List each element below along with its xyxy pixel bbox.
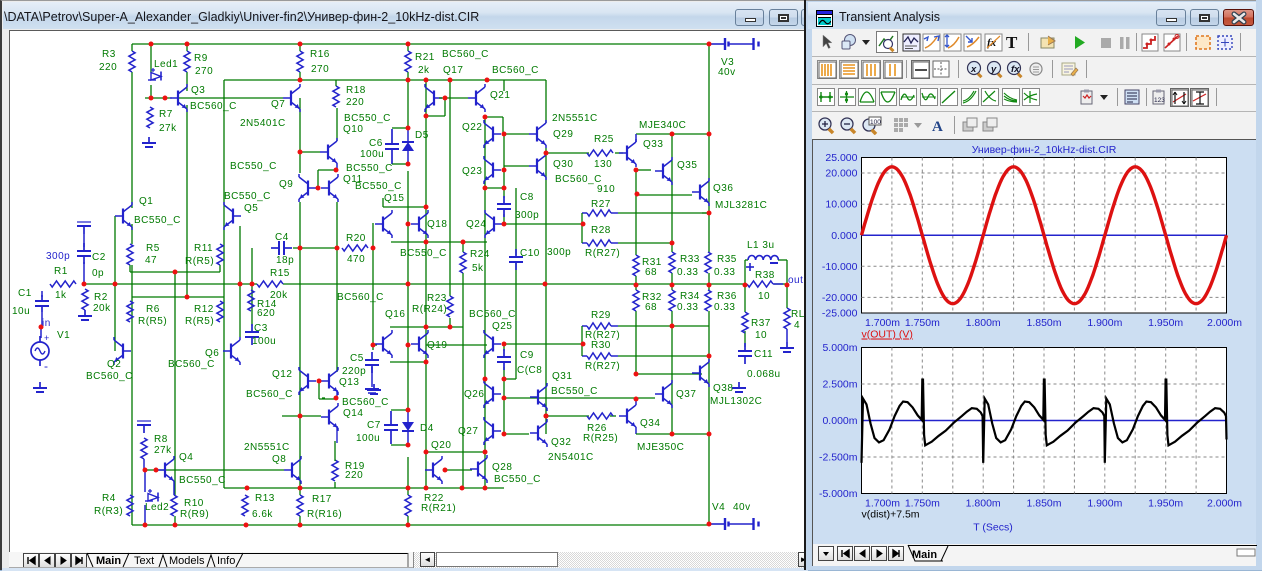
svg-text:R38: R38 — [755, 270, 775, 281]
svg-text:5k: 5k — [472, 263, 484, 274]
svg-text:R8: R8 — [154, 434, 168, 445]
svg-text:BC550_C: BC550_C — [346, 163, 393, 174]
svg-text:Q9: Q9 — [279, 179, 293, 190]
svg-text:BC550_C: BC550_C — [179, 475, 226, 486]
svg-text:R9: R9 — [194, 53, 208, 64]
svg-text:R25: R25 — [594, 134, 614, 145]
svg-text:220: 220 — [346, 97, 364, 108]
svg-text:Q22: Q22 — [462, 122, 482, 133]
svg-text:Q31: Q31 — [552, 371, 572, 382]
svg-text:R5: R5 — [146, 243, 160, 254]
svg-text:100u: 100u — [360, 149, 384, 160]
svg-text:R6: R6 — [146, 304, 160, 315]
svg-text:-5.000m: -5.000m — [819, 488, 858, 500]
svg-text:1.900m: 1.900m — [1087, 317, 1122, 329]
svg-text:R2: R2 — [94, 292, 108, 303]
svg-text:BC560_C: BC560_C — [168, 359, 215, 370]
svg-text:R(R5): R(R5) — [138, 316, 167, 327]
svg-text:4: 4 — [794, 320, 800, 331]
svg-text:20.000: 20.000 — [825, 168, 857, 180]
svg-text:R20: R20 — [346, 233, 366, 244]
svg-text:R23: R23 — [427, 293, 447, 304]
svg-text:BC550_C: BC550_C — [344, 113, 391, 124]
svg-text:BC550_C: BC550_C — [224, 191, 271, 202]
svg-text:0.33: 0.33 — [677, 302, 698, 313]
svg-text:10.000: 10.000 — [825, 199, 857, 211]
svg-text:BC550_C: BC550_C — [494, 474, 541, 485]
svg-text:BC560_C: BC560_C — [442, 49, 489, 60]
svg-text:-: - — [44, 359, 49, 373]
svg-text:100: 100 — [870, 119, 881, 126]
svg-text:R12: R12 — [194, 304, 214, 315]
svg-text:Q30: Q30 — [553, 159, 573, 170]
svg-text:0.068u: 0.068u — [747, 369, 781, 380]
svg-text:R(R9): R(R9) — [180, 509, 209, 520]
svg-text:1.850m: 1.850m — [1026, 498, 1061, 510]
svg-text:2.000m: 2.000m — [1207, 317, 1242, 329]
svg-text:Q28: Q28 — [492, 462, 512, 473]
svg-text:R29: R29 — [591, 310, 611, 321]
svg-text:R16: R16 — [310, 49, 330, 60]
svg-text:Q33: Q33 — [643, 139, 663, 150]
svg-text:BC560_C: BC560_C — [246, 389, 293, 400]
svg-text:R36: R36 — [717, 291, 737, 302]
svg-text:910: 910 — [597, 184, 615, 195]
svg-text:Q25: Q25 — [492, 321, 512, 332]
svg-text:Q23: Q23 — [462, 166, 482, 177]
svg-text:R(R27): R(R27) — [585, 248, 620, 259]
svg-text:R(R5): R(R5) — [185, 256, 214, 267]
svg-text:2k: 2k — [418, 65, 430, 76]
svg-text:C10: C10 — [520, 248, 540, 259]
svg-text:Q35: Q35 — [677, 160, 697, 171]
svg-text:Text: Text — [134, 555, 154, 567]
svg-text:300p: 300p — [515, 210, 539, 221]
svg-text:v(dist)+7.5m: v(dist)+7.5m — [862, 509, 920, 521]
svg-text:C2: C2 — [92, 252, 106, 263]
svg-text:BC550_C: BC550_C — [134, 215, 181, 226]
svg-text:A: A — [932, 119, 943, 135]
svg-text:R35: R35 — [717, 254, 737, 265]
svg-text:-20.000: -20.000 — [822, 292, 858, 304]
svg-text:R(R27): R(R27) — [585, 361, 620, 372]
svg-text:R17: R17 — [312, 494, 332, 505]
svg-text:BC560_C: BC560_C — [492, 65, 539, 76]
svg-text:1.800m: 1.800m — [966, 317, 1001, 329]
svg-text:10: 10 — [755, 330, 767, 341]
svg-text:123: 123 — [1154, 97, 1165, 104]
svg-text:x: x — [970, 64, 977, 75]
svg-text:R21: R21 — [415, 52, 435, 63]
svg-text:220: 220 — [345, 470, 363, 481]
svg-text:100u: 100u — [356, 433, 380, 444]
svg-text:C(C8: C(C8 — [517, 365, 542, 376]
svg-text:R(R24): R(R24) — [412, 304, 447, 315]
svg-text:0.33: 0.33 — [677, 267, 698, 278]
svg-text:130: 130 — [594, 159, 612, 170]
svg-text:R28: R28 — [591, 225, 611, 236]
svg-text:-10.000: -10.000 — [822, 261, 858, 273]
svg-text:R(R21): R(R21) — [421, 503, 456, 514]
svg-text:2.500m: 2.500m — [822, 379, 857, 391]
svg-text:C4: C4 — [275, 232, 289, 243]
svg-text:R11: R11 — [194, 243, 213, 254]
svg-text:R37: R37 — [751, 318, 771, 329]
svg-text:220: 220 — [99, 62, 117, 73]
svg-text:Led2: Led2 — [145, 502, 169, 513]
svg-text:C1: C1 — [18, 288, 32, 299]
svg-text:2N5551C: 2N5551C — [552, 113, 598, 124]
svg-text:R30: R30 — [591, 340, 611, 351]
svg-text:BC560_C: BC560_C — [190, 101, 237, 112]
svg-text:BC550_C: BC550_C — [400, 248, 447, 259]
svg-text:Q10: Q10 — [343, 124, 363, 135]
svg-text:Q20: Q20 — [431, 440, 451, 451]
svg-text:470: 470 — [347, 254, 365, 265]
svg-text:R(R16): R(R16) — [307, 509, 342, 520]
svg-text:Q19: Q19 — [427, 340, 447, 351]
svg-text:Q24: Q24 — [466, 219, 486, 230]
svg-text:270: 270 — [195, 66, 213, 77]
svg-text:R7: R7 — [159, 109, 173, 120]
svg-text:C6: C6 — [369, 138, 383, 149]
svg-text:10u: 10u — [12, 306, 30, 317]
svg-text:Q36: Q36 — [713, 183, 733, 194]
svg-text:BC560_C: BC560_C — [337, 292, 384, 303]
svg-text:R4: R4 — [102, 493, 116, 504]
svg-text:Q13: Q13 — [339, 377, 359, 388]
svg-text:Models: Models — [169, 555, 205, 567]
svg-text:Q32: Q32 — [551, 437, 571, 448]
svg-text:Q3: Q3 — [191, 85, 205, 96]
svg-text:-2.500m: -2.500m — [819, 452, 858, 464]
svg-text:Q16: Q16 — [385, 309, 405, 320]
svg-text:MJE350C: MJE350C — [637, 442, 684, 453]
svg-text:Led1: Led1 — [154, 59, 178, 70]
svg-text:BC550_C: BC550_C — [355, 181, 402, 192]
svg-text:2N5401C: 2N5401C — [240, 118, 286, 129]
svg-text:Q14: Q14 — [343, 408, 363, 419]
svg-text:BC560_C: BC560_C — [86, 371, 133, 382]
svg-text:0p: 0p — [92, 268, 104, 279]
svg-text:C11: C11 — [754, 349, 773, 360]
svg-text:Info: Info — [217, 555, 235, 567]
svg-text:+: + — [44, 333, 50, 343]
svg-text:Q21: Q21 — [490, 90, 510, 101]
svg-text:R33: R33 — [680, 254, 700, 265]
svg-text:y: y — [990, 64, 997, 75]
svg-text:C7: C7 — [367, 420, 381, 431]
svg-text:C9: C9 — [520, 350, 534, 361]
svg-text:BC560_C: BC560_C — [469, 309, 516, 320]
svg-text:T: T — [1006, 33, 1018, 52]
svg-text:R10: R10 — [184, 498, 204, 509]
svg-text:BC550_C: BC550_C — [551, 386, 598, 397]
svg-text:6.6k: 6.6k — [252, 509, 273, 520]
svg-text:R1: R1 — [54, 266, 68, 277]
svg-text:0.33: 0.33 — [714, 267, 735, 278]
svg-text:V1: V1 — [57, 330, 70, 341]
svg-text:Q37: Q37 — [676, 389, 696, 400]
svg-text:Q18: Q18 — [427, 219, 447, 230]
svg-text:-25.000: -25.000 — [822, 308, 858, 320]
svg-text:C5: C5 — [350, 353, 364, 364]
svg-text:R3: R3 — [102, 49, 116, 60]
svg-text:R34: R34 — [680, 291, 700, 302]
svg-text:220p: 220p — [342, 366, 366, 377]
svg-text:1k: 1k — [55, 290, 67, 301]
svg-text:BC560_C: BC560_C — [342, 397, 389, 408]
svg-text:300p: 300p — [547, 247, 571, 258]
svg-text:R(R25): R(R25) — [583, 433, 618, 444]
svg-text:C3: C3 — [254, 323, 268, 334]
svg-text:R(R5): R(R5) — [185, 316, 214, 327]
svg-text:300p: 300p — [46, 251, 70, 262]
svg-text:Q38: Q38 — [713, 383, 733, 394]
svg-text:R15: R15 — [270, 268, 290, 279]
svg-text:2.000m: 2.000m — [1207, 498, 1242, 510]
svg-text:Q1: Q1 — [139, 196, 153, 207]
svg-text:Q4: Q4 — [179, 452, 193, 463]
svg-text:MJL1302C: MJL1302C — [710, 396, 762, 407]
svg-text:Q12: Q12 — [272, 369, 292, 380]
svg-text:v(OUT) (V): v(OUT) (V) — [862, 329, 913, 341]
svg-text:Main: Main — [96, 555, 121, 567]
svg-text:R24: R24 — [470, 249, 490, 260]
svg-text:40v: 40v — [718, 67, 736, 78]
svg-text:270: 270 — [311, 64, 329, 75]
svg-text:Q6: Q6 — [205, 348, 219, 359]
svg-text:25.000: 25.000 — [825, 152, 857, 164]
svg-text:18p: 18p — [276, 255, 294, 266]
svg-text:out: out — [788, 275, 803, 286]
svg-text:R27: R27 — [591, 199, 611, 210]
svg-text:1.900m: 1.900m — [1087, 498, 1122, 510]
svg-text:68: 68 — [645, 267, 657, 278]
svg-text:Q26: Q26 — [464, 389, 484, 400]
svg-text:D4: D4 — [420, 423, 434, 434]
svg-text:1.850m: 1.850m — [1026, 317, 1061, 329]
svg-text:BC560_C: BC560_C — [555, 174, 602, 185]
svg-text:in: in — [42, 318, 51, 329]
svg-text:Q15: Q15 — [384, 193, 404, 204]
svg-text:Универ-фин-2_10kHz-dist.CIR: Универ-фин-2_10kHz-dist.CIR — [972, 144, 1117, 156]
svg-text:Q34: Q34 — [640, 418, 660, 429]
svg-text:20k: 20k — [93, 303, 111, 314]
svg-text:1.750m: 1.750m — [905, 317, 940, 329]
svg-text:R(R3): R(R3) — [94, 506, 123, 517]
svg-text:2N5401C: 2N5401C — [548, 452, 594, 463]
svg-text:0.000: 0.000 — [831, 230, 857, 242]
svg-text:Q27: Q27 — [458, 426, 478, 437]
svg-text:Q8: Q8 — [272, 454, 286, 465]
svg-text:27k: 27k — [154, 445, 172, 456]
svg-text:40v: 40v — [733, 502, 751, 513]
svg-text:1.950m: 1.950m — [1148, 498, 1183, 510]
svg-text:BC550_C: BC550_C — [230, 161, 277, 172]
svg-text:1.800m: 1.800m — [966, 498, 1001, 510]
svg-text:1.950m: 1.950m — [1148, 317, 1183, 329]
svg-text:R13: R13 — [255, 493, 275, 504]
svg-text:100u: 100u — [252, 336, 276, 347]
svg-text:10: 10 — [758, 291, 770, 302]
svg-text:D5: D5 — [415, 130, 429, 141]
svg-text:1.700m: 1.700m — [865, 317, 900, 329]
svg-text:2N5551C: 2N5551C — [244, 442, 290, 453]
svg-text:5.000m: 5.000m — [822, 342, 857, 354]
svg-text:Q2: Q2 — [107, 359, 121, 370]
svg-text:RL: RL — [791, 309, 805, 320]
svg-text:0.000m: 0.000m — [822, 415, 857, 427]
svg-text:0.33: 0.33 — [714, 302, 735, 313]
svg-text:47: 47 — [145, 255, 157, 266]
svg-text:68: 68 — [645, 302, 657, 313]
svg-text:Q17: Q17 — [443, 65, 463, 76]
svg-text:MJE340C: MJE340C — [639, 120, 686, 131]
svg-text:L1 3u: L1 3u — [747, 240, 775, 251]
svg-text:MJL3281C: MJL3281C — [715, 200, 767, 211]
svg-text:Main: Main — [912, 549, 937, 561]
svg-text:T (Secs): T (Secs) — [973, 522, 1012, 534]
svg-text:Q7: Q7 — [271, 99, 285, 110]
svg-text:27k: 27k — [159, 123, 177, 134]
svg-text:Q29: Q29 — [553, 129, 573, 140]
svg-text:Q5: Q5 — [244, 203, 258, 214]
svg-text:C8: C8 — [520, 192, 534, 203]
svg-text:V4: V4 — [712, 502, 725, 513]
svg-text:R18: R18 — [346, 85, 366, 96]
svg-text:620: 620 — [257, 308, 275, 319]
